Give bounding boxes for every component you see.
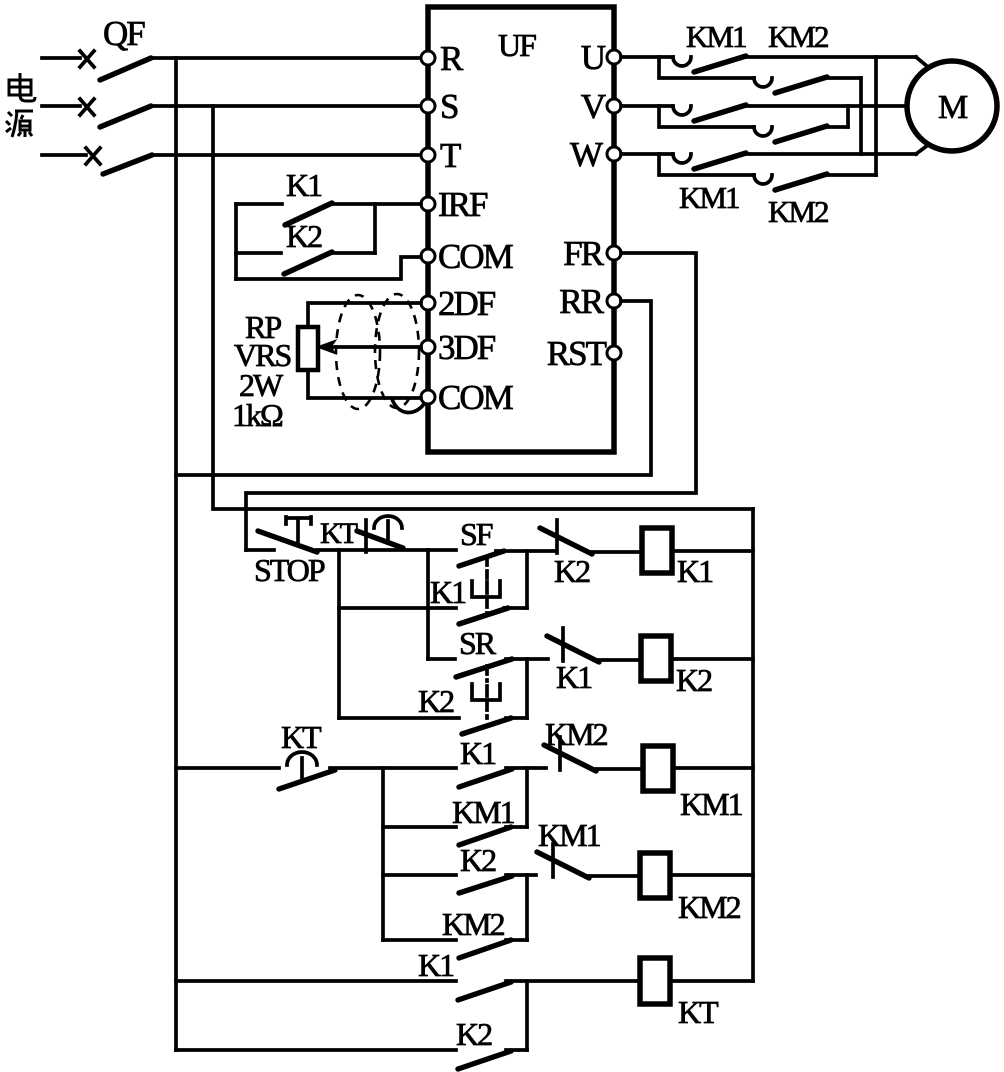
time relay contact KT delayed make (row3) bbox=[176, 719, 335, 789]
svg-text:K1: K1 bbox=[677, 553, 713, 589]
pin V bbox=[607, 99, 621, 113]
pin T bbox=[421, 148, 435, 162]
selector contact SR bbox=[428, 625, 548, 677]
svg-text:RST: RST bbox=[547, 334, 607, 373]
svg-text:KT: KT bbox=[281, 719, 322, 755]
contactor KM2 main contact phase U bbox=[659, 57, 861, 93]
svg-text:K2: K2 bbox=[554, 553, 590, 589]
pin U bbox=[607, 50, 621, 64]
pin W bbox=[607, 147, 621, 161]
pin COM bbox=[421, 249, 435, 263]
wire KM2-U output down to motor lead 3 bbox=[859, 78, 863, 154]
label 电源 (power source) bbox=[6, 73, 35, 137]
relay contact K2 make (row4) bbox=[383, 842, 536, 893]
wire S phase to UF pin S bbox=[151, 104, 421, 108]
pin RST bbox=[607, 346, 621, 360]
svg-text:KM1: KM1 bbox=[679, 180, 739, 215]
contactor KM2 main contact phase V bbox=[659, 106, 848, 142]
wire vertical V1 bbox=[337, 550, 341, 718]
mechanical link SF-K1 dashed bbox=[472, 557, 500, 615]
relay contact K2 break (row1) bbox=[540, 520, 592, 589]
wire vertical N4 bbox=[525, 768, 529, 827]
wire motor lead 3 diagonal bbox=[916, 145, 928, 154]
contactor KM1 main contact phase V bbox=[621, 105, 908, 121]
wire row2 to coil K2 bbox=[597, 658, 641, 662]
svg-text:M: M bbox=[938, 89, 968, 126]
wire vertical N2 bbox=[525, 551, 529, 608]
svg-text:1kΩ: 1kΩ bbox=[232, 397, 283, 433]
wire vertical N3 bbox=[525, 659, 529, 718]
svg-text:KM1: KM1 bbox=[538, 817, 601, 853]
svg-text:KM2: KM2 bbox=[442, 906, 505, 942]
svg-text:K2: K2 bbox=[286, 218, 322, 254]
contactor contact KM1 break (row4) bbox=[537, 817, 601, 878]
svg-text:2DF: 2DF bbox=[438, 284, 496, 323]
potentiometer RP body bbox=[298, 327, 318, 370]
contactor KM2 main contact phase W bbox=[659, 154, 876, 190]
wire vertical A from R line down to bottom row bbox=[174, 58, 178, 1050]
svg-text:U: U bbox=[581, 38, 606, 77]
wire coil K1 to right rail bbox=[672, 549, 753, 553]
wire coil KM1 to right rail bbox=[673, 766, 753, 770]
wire row4 to coil KM2 bbox=[587, 874, 640, 878]
svg-text:KM2: KM2 bbox=[545, 716, 608, 752]
wire row1 to coil K1 bbox=[592, 550, 642, 554]
coil KM2 bbox=[640, 853, 670, 898]
mechanical link SR-K2 dashed bbox=[472, 666, 500, 718]
wire KM2-V output up to motor lead 2 bbox=[846, 106, 850, 127]
wire ladder top rail bbox=[246, 507, 753, 511]
wire coil KM2 to right rail bbox=[670, 873, 753, 877]
pin 2DF bbox=[421, 296, 435, 310]
wire RP bottom to COM bbox=[308, 370, 421, 398]
wire RP top to 2DF bbox=[308, 303, 421, 327]
svg-text:KM2: KM2 bbox=[768, 194, 828, 229]
wire motor lead 1 diagonal bbox=[916, 57, 928, 67]
relay contact K2 (IRF circuit) bbox=[236, 218, 375, 274]
wire K1K2 bottom to COM bbox=[236, 257, 421, 279]
wire row1 STOP to N1 bbox=[317, 548, 428, 552]
inverter U1 box UF bbox=[428, 7, 614, 452]
svg-text:K1: K1 bbox=[556, 659, 592, 695]
coil KM1 bbox=[643, 746, 673, 791]
pin FR bbox=[607, 246, 621, 260]
relay contact K1 make (row5) bbox=[176, 947, 640, 1000]
pin RR bbox=[607, 294, 621, 308]
breaker QF pole 2 (S phase) bbox=[42, 99, 151, 127]
pin COM 2 bbox=[421, 390, 435, 404]
pin R bbox=[421, 51, 435, 65]
wire vertical N5 bbox=[525, 875, 529, 940]
wire coil KT to right rail bbox=[670, 979, 753, 983]
wire vertical N1 bbox=[426, 550, 430, 659]
cable loop arc at COM bbox=[392, 399, 424, 413]
wire row3 KT to K1 contact bbox=[330, 766, 456, 770]
shielded cable dashed loop right bbox=[375, 294, 419, 408]
relay contact K1 (IRF circuit) bbox=[236, 167, 421, 225]
relay contact K1 self-hold (row1 branch) bbox=[339, 574, 527, 624]
svg-text:COM: COM bbox=[438, 378, 514, 417]
time relay contact KT break (row1) bbox=[320, 516, 403, 552]
pushbutton STOP (break) bbox=[246, 517, 325, 588]
relay contact K1 break (row2) bbox=[547, 628, 599, 695]
svg-text:K2: K2 bbox=[418, 683, 454, 719]
wire RR loop to vertical A bbox=[176, 301, 651, 475]
breaker QF pole 1 (R phase) bbox=[42, 51, 151, 80]
wire ladder right rail bbox=[751, 509, 755, 981]
svg-text:W: W bbox=[570, 135, 603, 174]
svg-text:K1: K1 bbox=[460, 735, 496, 771]
pin S bbox=[421, 99, 435, 113]
svg-text:K2: K2 bbox=[456, 1016, 492, 1052]
svg-text:KM1: KM1 bbox=[680, 786, 743, 822]
svg-text:V: V bbox=[581, 87, 606, 126]
svg-text:KT: KT bbox=[320, 517, 358, 550]
svg-text:KM1: KM1 bbox=[686, 19, 746, 54]
shielded cable dashed loop left bbox=[336, 295, 380, 409]
svg-text:FR: FR bbox=[563, 234, 604, 273]
wire FR loop to ladder bbox=[246, 253, 696, 550]
svg-text:COM: COM bbox=[438, 237, 514, 276]
svg-text:QF: QF bbox=[103, 14, 145, 53]
coil KT bbox=[640, 958, 670, 1004]
svg-text:R: R bbox=[440, 39, 464, 78]
svg-text:UF: UF bbox=[498, 27, 536, 63]
svg-text:K2: K2 bbox=[460, 842, 496, 878]
wire R phase to UF pin R bbox=[151, 56, 421, 60]
wire vertical N6 bbox=[525, 981, 529, 1050]
wire K1K2 left bus bbox=[234, 204, 238, 279]
selector contact SF bbox=[428, 516, 504, 566]
wire K1K2 right link bbox=[373, 204, 377, 253]
pin IRF bbox=[421, 197, 435, 211]
pin 3DF bbox=[421, 340, 435, 354]
wiper arrow of RP to 3DF bbox=[330, 345, 421, 349]
svg-text:K1: K1 bbox=[418, 947, 454, 983]
svg-text:SR: SR bbox=[459, 625, 497, 661]
wire KM2-W output up to motor lead 1 bbox=[874, 57, 878, 175]
breaker QF pole 3 (T phase) bbox=[42, 148, 152, 174]
relay contact K2 self-hold (row2 branch) bbox=[339, 683, 527, 734]
svg-text:IRF: IRF bbox=[438, 185, 488, 224]
svg-text:K1: K1 bbox=[286, 167, 322, 203]
svg-text:K1: K1 bbox=[430, 574, 466, 610]
coil K2 bbox=[641, 636, 671, 681]
svg-text:S: S bbox=[440, 87, 458, 126]
wire vertical B from S line down to ladder feed bbox=[213, 106, 246, 509]
svg-text:K2: K2 bbox=[676, 662, 712, 698]
motor M bbox=[907, 61, 997, 151]
wire row3 to coil KM1 bbox=[594, 767, 643, 771]
relay contact K2 make (row6) bbox=[176, 1016, 527, 1069]
svg-text:STOP: STOP bbox=[254, 552, 325, 588]
coil K1 bbox=[642, 528, 672, 573]
contactor KM1 main contact phase U bbox=[621, 56, 916, 72]
svg-text:KM1: KM1 bbox=[452, 794, 515, 830]
relay contact K1 make (row3) bbox=[459, 735, 546, 787]
wire row1 SF to K2 contact bbox=[496, 549, 555, 553]
wire vertical V2 bbox=[381, 768, 385, 940]
svg-text:KM2: KM2 bbox=[678, 889, 741, 925]
svg-text:3DF: 3DF bbox=[438, 328, 496, 367]
contactor contact KM1 self-hold (row3 branch) bbox=[383, 794, 527, 845]
contactor KM1 main contact phase W bbox=[621, 153, 916, 169]
wire T phase to UF pin T bbox=[152, 153, 421, 157]
contactor contact KM2 self-hold (row4 branch) bbox=[383, 906, 527, 958]
svg-text:KM2: KM2 bbox=[768, 19, 828, 54]
contactor contact KM2 break (row3) bbox=[544, 716, 608, 771]
svg-text:T: T bbox=[440, 136, 461, 175]
svg-text:RR: RR bbox=[559, 282, 604, 321]
svg-text:SF: SF bbox=[460, 516, 493, 552]
wire coil K2 to right rail bbox=[671, 657, 753, 661]
svg-text:KT: KT bbox=[678, 994, 719, 1030]
